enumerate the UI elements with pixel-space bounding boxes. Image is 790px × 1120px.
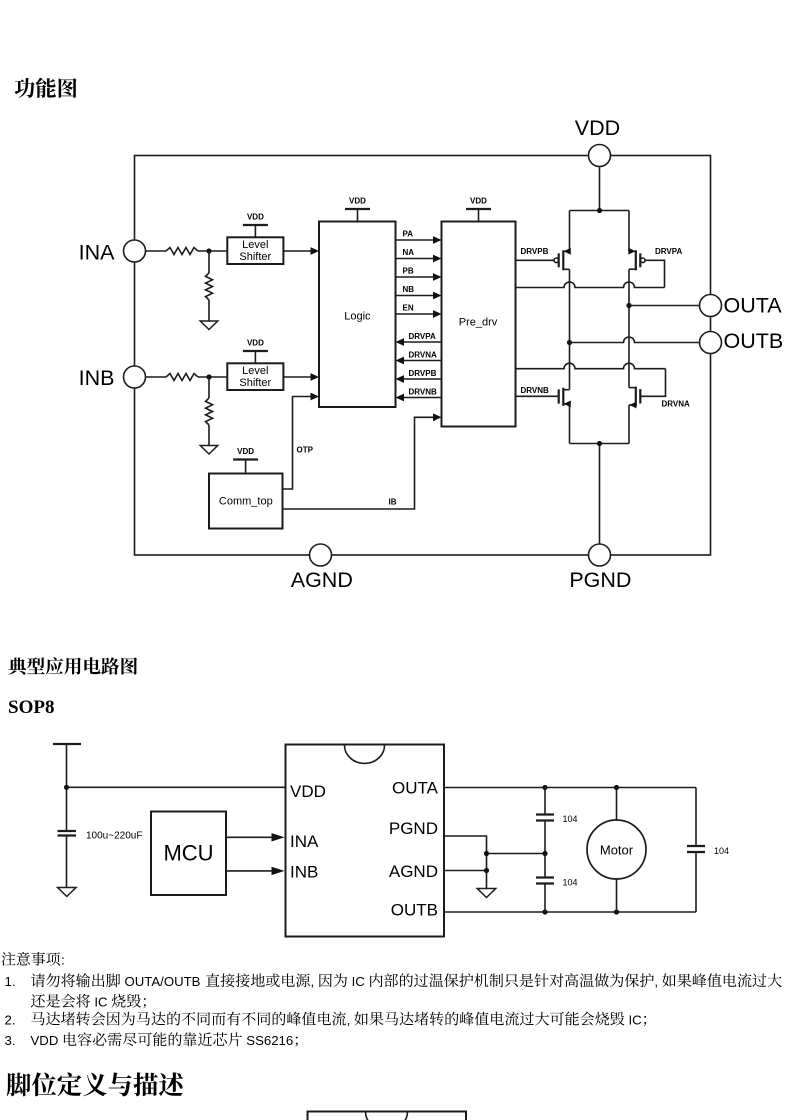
wire/arrow logic to pre-driver signal NA	[396, 258, 434, 260]
svg-text:100u~220uF: 100u~220uF	[86, 831, 142, 842]
svg-text:3.: 3.	[5, 1033, 16, 1048]
input port INA (circle)	[124, 240, 146, 262]
svg-text::: :	[61, 953, 65, 968]
svg-text:104: 104	[563, 814, 578, 824]
MCU block	[151, 812, 226, 896]
svg-text:PA: PA	[403, 230, 414, 239]
svg-text:PB: PB	[403, 267, 414, 276]
svg-text:NA: NA	[403, 248, 415, 257]
wire PGND pin to ground net	[444, 836, 487, 889]
svg-text:Level: Level	[242, 365, 268, 377]
resistor R3 (INB series)	[166, 374, 198, 381]
svg-text:1.: 1.	[5, 974, 16, 989]
output port OUTB (circle)	[700, 332, 722, 354]
note header 注意事项:	[2, 952, 65, 968]
wire VDD rail to chip VDD pin	[67, 786, 286, 788]
note item 1 line 2	[31, 994, 146, 1010]
ground (INB pulldown)	[200, 446, 218, 455]
svg-text:VDD: VDD	[31, 1033, 59, 1048]
section heading 脚位定义与描述 (Pin Definition and Description)	[7, 1072, 183, 1096]
wire NMOS sources to PGND	[569, 404, 571, 444]
ground pin PGND (circle)	[589, 544, 611, 566]
svg-text:VDD: VDD	[237, 447, 254, 456]
wire OUTB net (application)	[444, 911, 696, 913]
VDD rail of pre-driver	[466, 208, 491, 210]
wire VDD pin to H-bridge rail	[599, 167, 601, 211]
wire R3 to level shifter U2	[198, 376, 227, 378]
common/top block U5 (Comm_top)	[209, 474, 283, 529]
resistor R1 (INA series)	[166, 248, 198, 255]
svg-text:DRVPA: DRVPA	[655, 247, 682, 256]
wire OUTA to port	[629, 305, 700, 307]
svg-text:INB: INB	[79, 366, 115, 390]
section heading 典型应用电路图 (Typical Application Circuit)	[8, 657, 137, 675]
note item 1 line 1	[31, 973, 782, 989]
IC U1 SS6216 (SOP8 package body)	[286, 745, 445, 937]
wire/arrow U1 output to logic (PA path)	[283, 250, 311, 252]
wire OUTB to port (hops over OUTA leg)	[570, 337, 700, 343]
svg-text:DRVPB: DRVPB	[409, 369, 437, 378]
svg-text:2.: 2.	[5, 1012, 16, 1027]
svg-text:VDD: VDD	[247, 338, 264, 347]
note item 2 text	[31, 1012, 646, 1028]
svg-text:Pre_drv: Pre_drv	[459, 317, 498, 329]
node OUTB-C3	[542, 909, 547, 914]
node VDD rail center	[597, 208, 602, 213]
svg-text:Shifter: Shifter	[239, 377, 271, 389]
functional diagram frame	[135, 156, 711, 556]
resistor R4 (INB pulldown)	[208, 377, 210, 398]
pre-driver block U4	[442, 222, 516, 427]
svg-text:INB: INB	[290, 863, 318, 882]
logic block U3	[319, 222, 396, 408]
svg-text:DRVNA: DRVNA	[662, 400, 691, 409]
wire/arrow logic to pre-driver signal PA	[396, 239, 434, 241]
svg-text:IC: IC	[629, 1012, 643, 1027]
wire/arrow MCU to INB	[226, 870, 272, 872]
svg-text:DRVNB: DRVNB	[521, 386, 550, 395]
wire IB from Comm_top to pre-driver	[283, 417, 433, 509]
svg-text:104: 104	[563, 878, 578, 888]
wire right branch (OUTA leg)	[628, 269, 630, 305]
svg-text:Shifter: Shifter	[239, 251, 271, 263]
wire H-bridge VDD rail	[570, 210, 630, 212]
svg-text:,: ,	[347, 1012, 351, 1027]
svg-text:SS6216: SS6216	[246, 1033, 293, 1048]
VDD rail of logic	[345, 208, 370, 210]
wire/arrow MCU to INA	[226, 836, 272, 838]
node OUTA-motor	[614, 785, 619, 790]
svg-text:Motor: Motor	[600, 843, 634, 858]
output port OUTA (circle)	[700, 295, 722, 317]
svg-text:AGND: AGND	[389, 862, 438, 881]
wire/arrow pre-driver to logic signal DRVNA	[404, 360, 442, 362]
node ground-net junction	[484, 851, 489, 856]
transistor Q3 NMOS (DRVNB, left low-side)	[516, 395, 559, 397]
node OUTA-C2	[542, 785, 547, 790]
wire/arrow logic to pre-driver signal EN	[396, 313, 434, 315]
node OUTA junction	[626, 303, 631, 308]
wire left branch (OUTB leg)	[569, 269, 571, 342]
node VDD junction (application)	[64, 785, 69, 790]
node INB junction	[206, 374, 211, 379]
svg-text:DRVNA: DRVNA	[409, 350, 438, 359]
section heading 功能图 (Functional Diagram)	[15, 78, 77, 98]
svg-text:PGND: PGND	[389, 819, 438, 838]
svg-text:AGND: AGND	[291, 568, 353, 592]
svg-text:OUTA: OUTA	[724, 293, 783, 317]
svg-text:VDD: VDD	[290, 782, 326, 801]
svg-text:VDD: VDD	[349, 196, 366, 205]
svg-text:INA: INA	[290, 832, 319, 851]
wire INA to resistor R1	[146, 250, 167, 252]
svg-text:VDD: VDD	[247, 212, 264, 221]
svg-text:,: ,	[654, 974, 658, 989]
svg-text:,: ,	[311, 974, 315, 989]
wire DRVPA gate drive (hops over output branches)	[516, 282, 665, 288]
svg-text:MCU: MCU	[163, 840, 213, 865]
level shifter U1	[227, 237, 283, 264]
svg-text:Level: Level	[242, 239, 268, 251]
ground (C1)	[58, 888, 77, 897]
resistor R2 (INA pulldown)	[208, 251, 210, 273]
node PGND junction	[597, 441, 602, 446]
transistor Q4 NMOS (DRVNA, right low-side)	[640, 369, 665, 397]
svg-text:INA: INA	[79, 241, 116, 265]
svg-text:IC: IC	[352, 974, 366, 989]
svg-text:OTP: OTP	[297, 446, 314, 455]
node INA junction	[206, 248, 211, 253]
wire/arrow U2 output to logic	[283, 376, 311, 378]
svg-text:OUTB: OUTB	[724, 329, 784, 353]
svg-text:Comm_top: Comm_top	[219, 496, 273, 508]
node OUTB-motor	[614, 909, 619, 914]
svg-text:IC: IC	[94, 995, 108, 1010]
power pin VDD (circle)	[589, 145, 611, 167]
wire/arrow pre-driver to logic signal DRVNB	[404, 397, 442, 399]
ground (application)	[477, 889, 496, 898]
svg-text:SOP8: SOP8	[8, 697, 54, 718]
svg-text:OUTA: OUTA	[392, 779, 439, 798]
svg-text:OUTA/OUTB: OUTA/OUTB	[125, 974, 201, 989]
transistor Q2 PMOS (DRVPA, right high-side)	[645, 260, 665, 287]
svg-text:104: 104	[714, 846, 729, 856]
wire ground net to capacitor midpoint	[487, 853, 546, 855]
wire OUTA net (application)	[444, 787, 696, 789]
wire OTP from Comm_top to logic	[283, 397, 312, 490]
svg-text:VDD: VDD	[470, 196, 487, 205]
capacitor C4 (104, across motor)	[695, 788, 697, 847]
VDD rail of U1	[243, 224, 268, 226]
wire/arrow pre-driver to logic signal DRVPB	[404, 378, 442, 380]
power rail VDD bar (application)	[53, 743, 81, 745]
VDD rail of U2	[243, 350, 268, 352]
svg-text:DRVPA: DRVPA	[409, 332, 436, 341]
wire/arrow logic to pre-driver signal PB	[396, 276, 434, 278]
VDD rail of Comm_top	[233, 458, 258, 460]
ground pin AGND (circle)	[310, 544, 332, 566]
motor M1	[616, 788, 618, 821]
svg-text:DRVPB: DRVPB	[521, 247, 549, 256]
svg-text:PGND: PGND	[569, 568, 631, 592]
wire R1 to level shifter U1	[198, 250, 227, 252]
level shifter U2	[227, 363, 283, 390]
node AGND junction	[484, 868, 489, 873]
svg-text:NB: NB	[403, 285, 415, 294]
package outline (top of next figure, clipped)	[308, 1112, 467, 1120]
input port INB (circle)	[124, 366, 146, 388]
capacitor C3 (104, mid to OUTB)	[544, 854, 546, 878]
svg-text:EN: EN	[403, 304, 414, 313]
svg-text:Logic: Logic	[344, 311, 371, 323]
svg-text:VDD: VDD	[575, 116, 620, 140]
wire AGND pin to ground net	[444, 870, 487, 872]
svg-text:OUTB: OUTB	[391, 901, 438, 920]
node OUTB junction	[567, 340, 572, 345]
capacitor C2 (104, OUTA to mid)	[544, 788, 546, 815]
wire/arrow pre-driver to logic signal DRVPA	[404, 341, 442, 343]
node capacitor midpoint	[542, 851, 547, 856]
wire INB to resistor R3	[146, 376, 167, 378]
ground (INA pulldown)	[200, 321, 218, 330]
note item 3 text	[31, 1032, 298, 1048]
svg-text:IB: IB	[389, 498, 397, 507]
capacitor C1 (bulk, 100u~220uF)	[58, 830, 77, 832]
IC pin-1 notch	[345, 745, 385, 763]
transistor Q1 PMOS (DRVPB, left high-side)	[516, 259, 555, 261]
wire DRVNA gate drive (hops over output branches)	[516, 363, 666, 368]
wire/arrow logic to pre-driver signal NB	[396, 295, 434, 297]
svg-text:DRVNB: DRVNB	[409, 387, 438, 396]
